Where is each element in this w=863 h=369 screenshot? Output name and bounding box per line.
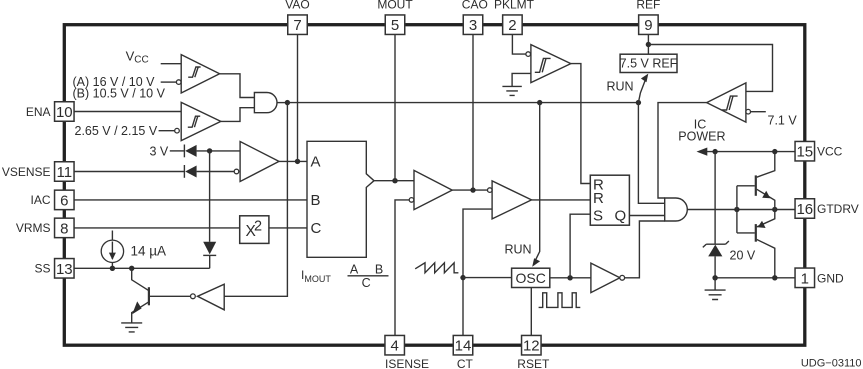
node REF junction [646,42,651,47]
bubble U8 output [191,294,196,299]
op-amp U1 VCC UVLO comparator [181,55,219,93]
wire U5 output to latch R2 [532,199,591,201]
svg-text:10: 10 [56,104,73,121]
svg-text:MOUT: MOUT [377,0,413,12]
wire U1 output to AND gate G1 [220,74,255,98]
svg-text:S: S [593,207,603,224]
bubble U10 threshold input [746,109,751,114]
bubble U3 inverting input [234,169,239,174]
diode D1 clamp 3V [183,145,185,158]
node zener top [712,149,717,154]
hysteresis glyph U2 [188,116,200,127]
wire SS pin line [74,267,210,269]
svg-text:OSC: OSC [516,270,546,286]
ground for Q1 emitter [121,323,142,332]
wire zener branch [714,152,716,245]
pin 3 CAO [463,15,483,35]
wire squarer to multiplier C input [269,227,307,229]
pin 15 VCC [795,141,815,161]
svg-text:CAO: CAO [462,0,488,12]
wire ENA threshold stub to U2 inverting input [159,130,175,132]
AND gate G1 enable [254,93,277,113]
svg-text:VRMS: VRMS [16,221,51,235]
op-amp U10 VCC monitor comparator [707,83,746,122]
svg-text:VCC: VCC [817,145,843,159]
svg-text:13: 13 [56,261,73,278]
op-amp U2 ENA comparator [181,102,221,140]
svg-text:REF: REF [636,0,660,12]
svg-text:PKLMT: PKLMT [494,0,535,12]
diode D2 clamp [183,165,185,178]
node driver emitters [772,207,777,212]
arrow RUN to 7.5V REF [638,79,645,103]
svg-text:16: 16 [796,201,813,218]
node CAO junction [470,187,475,192]
pin 9 REF [639,15,659,35]
pin 5 MOUT [385,15,405,35]
hysteresis glyph U10 [722,96,738,110]
wire VRMS pin to squarer [74,227,240,229]
svg-text:ISENSE: ISENSE [385,357,429,369]
svg-text:UDG−03110: UDG−03110 [801,358,862,369]
node OSC output to latch S [567,275,572,280]
svg-text:ENA: ENA [26,105,51,119]
wire U2 output to AND gate G1 [221,108,255,122]
sawtooth waveform glyph [415,263,458,273]
pin 1 GND [795,268,815,288]
node RUN to OSC branch [537,100,542,105]
wire clamp vertical to D3 [209,151,211,242]
wire ENA pin to U2 [74,111,181,113]
wire PKLMT pin to U9 inverting input [512,35,526,55]
svg-text:3 V: 3 V [150,144,169,158]
op-amp U5 PWM comparator [492,181,531,219]
bubble U5 inverting input [488,188,493,193]
svg-text:GTDRV: GTDRV [817,202,859,216]
wire U7 output to gate G2 [625,221,665,278]
wire latch Q output to gate G2 [629,215,664,217]
node RUN at G1 output [285,100,290,105]
svg-text:12: 12 [523,338,540,355]
oscillator block OSC [512,268,550,287]
wire CAO pin down [472,35,474,191]
wire ramp to OSC [463,277,512,279]
wire IC POWER rail [700,151,795,153]
wire RUN horizontal rail [287,102,638,104]
hysteresis glyph U9 [535,58,551,72]
ground for zener [705,278,726,300]
wire GND rail [715,277,795,279]
svg-text:R: R [593,190,604,207]
svg-text:C: C [311,220,322,237]
svg-text:2: 2 [508,17,516,34]
svg-text:5: 5 [391,17,399,34]
wire ISENSE to U4 inverting input [395,200,409,336]
wire REF to 7.1V comparator input [648,45,772,92]
diode D3 to soft-start line [203,242,216,255]
current source I1 14uA [111,231,113,269]
svg-text:(B) 10.5 V / 10 V: (B) 10.5 V / 10 V [73,87,166,101]
wire U9 noninverting input to ground [512,73,531,86]
svg-text:RUN: RUN [505,242,532,256]
bubble U1 inverting input [176,80,181,85]
svg-text:A: A [350,262,359,276]
AND gate G2 output driver logic [665,198,688,221]
pin 13 SS [55,259,75,279]
wire 7.1V stub [751,111,766,113]
transistor Q3 lower driver PNP [755,224,757,242]
wire multiplier output to U4 [374,180,414,182]
wire REF pin to 7.5V reference [647,35,649,55]
pin 2 PKLMT [503,15,523,35]
pin 11 VSENSE [55,162,75,182]
svg-text:2.65 V / 2.15 V: 2.65 V / 2.15 V [75,124,158,138]
svg-text:15: 15 [796,144,813,161]
node RUN to gate G2 branch [636,100,641,105]
svg-text:C: C [362,276,371,290]
arrow IC POWER [697,148,708,156]
svg-text:20 V: 20 V [730,248,756,262]
wire OSC output [550,277,591,279]
svg-text:POWER: POWER [678,129,725,143]
svg-text:A: A [311,153,321,170]
zener diode D4 20V [703,241,729,247]
inverter U8 soft-start run [198,284,225,310]
node zener bottom [712,275,717,280]
wire driver base rail [736,186,738,233]
wire MOUT pin down [394,35,396,181]
svg-text:B: B [375,262,383,276]
node VAO junction [295,159,300,164]
svg-text:11: 11 [57,164,73,181]
svg-text:3: 3 [469,17,477,34]
node driver base [734,207,739,212]
IC body border [64,25,805,346]
svg-text:GND: GND [817,271,844,285]
op-amp U3 voltage error amplifier [240,142,279,182]
svg-text:8: 8 [60,220,68,237]
pulse waveform glyph [539,293,581,308]
pin 16 GTDRV [795,199,815,219]
svg-text:1: 1 [801,270,809,287]
wire U3 output to multiplier A input [279,160,307,162]
svg-text:7: 7 [293,17,301,34]
pin 12 RSET [522,335,542,355]
pin 14 CT [453,335,473,355]
bubble U2 inverting input [175,128,180,133]
pin 8 VRMS [55,218,75,238]
svg-text:14: 14 [455,338,472,355]
wire 3V clamp stub [170,150,185,152]
svg-text:CT: CT [457,357,474,369]
wire S input of latch [570,214,590,278]
svg-text:9: 9 [644,17,652,34]
node MOUT junction [392,178,397,183]
wire U10 output to gate G2 top input [658,103,707,198]
wire VSENSE pin to D2 [74,171,184,173]
node clamp junction [207,148,212,153]
svg-text:Q: Q [615,207,627,224]
multiplier block A*B/C [307,141,374,257]
wire VCC stub to U1 [161,63,182,65]
svg-text:6: 6 [60,192,68,209]
op-amp U4 current amplifier [414,170,452,209]
transistor Q2 upper driver NPN [755,175,757,195]
svg-text:B: B [311,192,321,209]
wire U4 output to U5 [452,189,487,191]
transistor Q1 soft-start discharge [148,287,150,305]
wire UVLO threshold stub to U1 inverting input [161,81,177,83]
block 7.5 V REF [620,54,677,72]
svg-text:VSENSE: VSENSE [2,165,51,179]
svg-text:RSET: RSET [517,357,550,369]
svg-text:7.1 V: 7.1 V [768,114,798,128]
wire G2 output to GTDRV [687,209,795,211]
wire D1 to error amp U3 noninverting input [197,150,241,152]
ground for U9 input [502,86,521,95]
pin 6 IAC [55,190,75,210]
svg-text:2: 2 [254,219,262,235]
bubble U9 inverting input [526,52,531,57]
node SS discharge collector [129,266,134,271]
bubble U7 output [620,275,625,280]
op-amp U9 peak limit comparator [531,45,571,83]
wire RSET to OSC [530,288,532,336]
pin 4 ISENSE [385,335,405,355]
bubble U4 inverting input [409,198,414,203]
wire IAC pin to multiplier B input [74,199,307,201]
svg-text:4: 4 [391,338,399,355]
pin 7 VAO [288,15,308,35]
wire CT line and U5 noninverting input [463,209,492,335]
svg-text:VAO: VAO [285,0,309,12]
node lower collector [772,275,777,280]
squarer X2 block [240,216,269,244]
svg-text:7.5 V REF: 7.5 V REF [620,57,678,71]
svg-text:IAC: IAC [30,193,50,207]
inverter U7 clock [591,263,620,293]
wire PKLMT comparator output to latch R1 [571,64,591,184]
node current source on SS line [110,266,115,271]
pin 10 ENA [55,102,75,122]
wire D2 to U3 inverting input [197,171,235,173]
svg-text:14 µA: 14 µA [131,244,167,259]
wire RUN down to OSC with arrow [535,103,540,262]
wire G1 output [277,102,287,104]
svg-text:VCC: VCC [126,49,149,66]
wire RUN down to soft-start inverter U8 [224,103,287,297]
wire RUN branch to gate G2 [638,103,664,204]
node CT ramp junction [460,275,465,280]
svg-text:IMOUT: IMOUT [301,268,331,284]
svg-text:RUN: RUN [607,80,634,94]
latch U6 RS flip-flop [590,175,629,225]
svg-text:SS: SS [34,262,50,276]
wire VAO pin down [297,35,299,162]
hysteresis glyph U1 [188,67,200,77]
node upper collector [772,149,777,154]
